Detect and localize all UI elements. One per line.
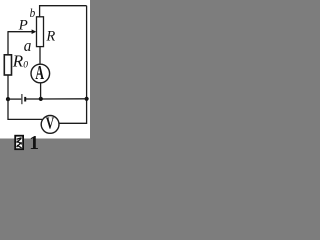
svg-text:V: V (46, 114, 55, 133)
svg-text:a: a (24, 36, 32, 55)
wire: R to ammeter lead (39, 47, 41, 65)
battery wire right to ammeter junction (26, 98, 41, 100)
wire: right rail down to junction (86, 6, 88, 99)
wire: ammeter junction to right junction (41, 98, 87, 100)
resistor R0 body (4, 55, 11, 75)
battery long plate (21, 94, 23, 104)
junction dot left (6, 97, 10, 101)
ammeter A1 (31, 64, 50, 83)
wire: node b to top-right corner (40, 6, 87, 18)
caption glyph 图 (15, 136, 23, 150)
wire: left rail upper (7, 31, 9, 55)
junction dot right (85, 97, 89, 101)
wire: left rail to voltmeter (8, 99, 42, 119)
junction dot ammeter (39, 97, 43, 101)
svg-text:R: R (45, 28, 55, 44)
wire: ammeter down lead (40, 83, 42, 99)
svg-text:1: 1 (29, 133, 39, 154)
svg-text:A: A (35, 63, 44, 84)
battery short plate (24, 97, 26, 102)
wiper arrow P wire (8, 31, 33, 33)
voltmeter V1 (41, 116, 59, 134)
rheostat R body (37, 17, 44, 47)
svg-text:b: b (30, 5, 36, 20)
wire: left rail lower (7, 75, 9, 99)
wiper arrowhead (32, 29, 37, 34)
wire: right rail to voltmeter (59, 99, 87, 124)
svg-text:P: P (18, 17, 28, 33)
battery wire left (8, 98, 21, 100)
